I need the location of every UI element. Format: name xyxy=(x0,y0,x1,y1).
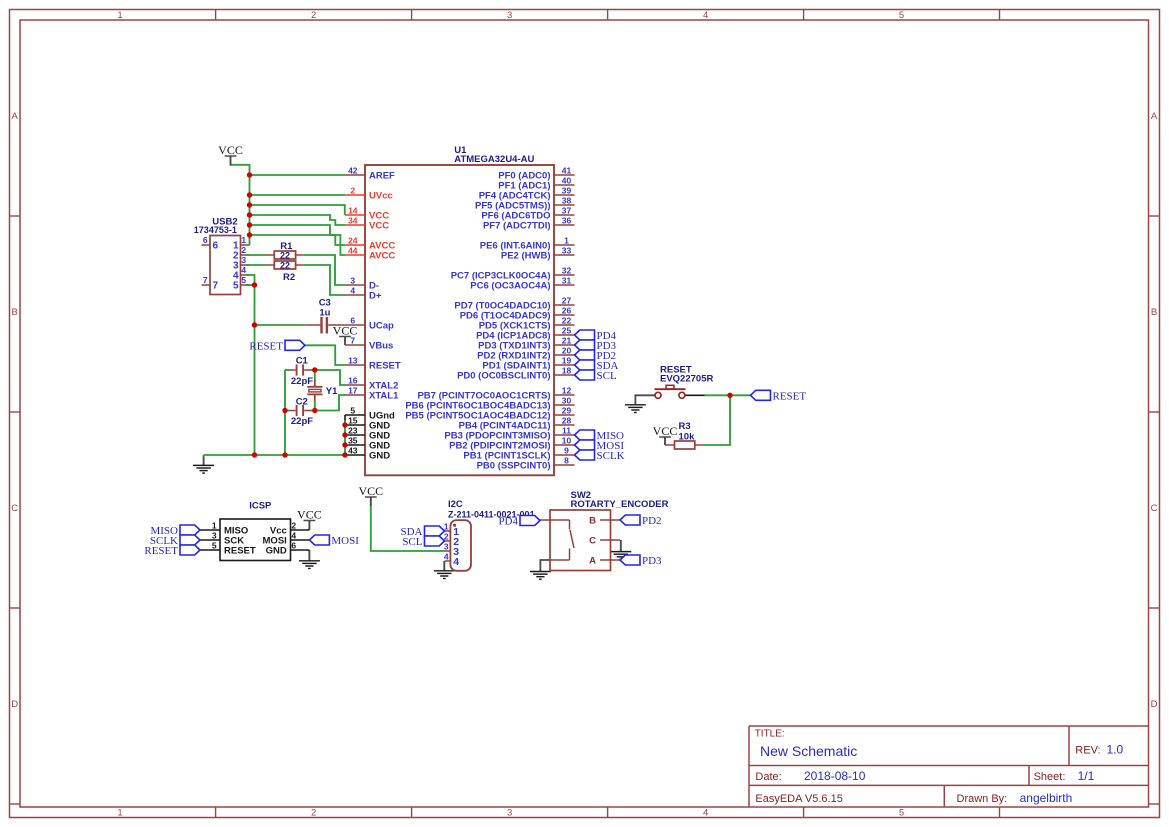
svg-text:2: 2 xyxy=(291,520,296,530)
svg-text:VCC: VCC xyxy=(653,424,678,438)
svg-text:5: 5 xyxy=(350,406,355,416)
svg-text:PD0 (OC0BSCLINT0): PD0 (OC0BSCLINT0) xyxy=(457,370,550,381)
svg-text:VBus: VBus xyxy=(369,340,393,351)
svg-text:I2C: I2C xyxy=(448,499,463,510)
svg-text:4: 4 xyxy=(241,265,246,275)
svg-text:AVCC: AVCC xyxy=(369,250,395,261)
svg-text:42: 42 xyxy=(348,166,358,176)
svg-text:18: 18 xyxy=(562,366,572,376)
svg-text:33: 33 xyxy=(562,246,572,256)
svg-text:VCC: VCC xyxy=(297,508,322,522)
svg-text:UVcc: UVcc xyxy=(369,190,393,201)
svg-text:SCL: SCL xyxy=(402,536,422,548)
svg-text:4: 4 xyxy=(703,10,708,21)
svg-text:TITLE:: TITLE: xyxy=(755,728,785,739)
svg-text:16: 16 xyxy=(348,376,358,386)
svg-text:RESET: RESET xyxy=(369,360,401,371)
svg-text:3: 3 xyxy=(350,276,355,286)
svg-text:REV:: REV: xyxy=(1075,744,1100,756)
svg-text:B: B xyxy=(12,307,18,318)
svg-text:C: C xyxy=(11,503,18,514)
svg-text:GND: GND xyxy=(369,450,390,461)
svg-text:UCap: UCap xyxy=(369,320,394,331)
svg-text:14: 14 xyxy=(348,206,358,216)
svg-text:1u: 1u xyxy=(319,307,330,318)
svg-text:A: A xyxy=(589,555,596,566)
svg-text:C1: C1 xyxy=(296,355,309,366)
svg-text:3: 3 xyxy=(212,530,217,540)
svg-text:1.0: 1.0 xyxy=(1107,742,1124,756)
svg-text:22pF: 22pF xyxy=(291,416,313,427)
svg-text:EVQ22705R: EVQ22705R xyxy=(660,374,713,385)
svg-text:PC6 (OC3AOC4A): PC6 (OC3AOC4A) xyxy=(470,280,550,291)
svg-text:13: 13 xyxy=(348,356,358,366)
svg-text:2: 2 xyxy=(241,245,246,255)
svg-text:20: 20 xyxy=(562,346,572,356)
svg-text:23: 23 xyxy=(348,426,358,436)
svg-text:38: 38 xyxy=(562,196,572,206)
svg-text:Date:: Date: xyxy=(755,771,781,783)
svg-text:R2: R2 xyxy=(283,272,295,283)
svg-text:21: 21 xyxy=(562,336,572,346)
svg-text:VCC: VCC xyxy=(358,484,383,498)
svg-text:2018-08-10: 2018-08-10 xyxy=(804,769,866,783)
svg-text:RESET: RESET xyxy=(773,391,807,403)
svg-text:1: 1 xyxy=(117,10,122,21)
svg-text:29: 29 xyxy=(562,406,572,416)
svg-text:34: 34 xyxy=(348,216,358,226)
svg-text:8: 8 xyxy=(564,456,569,466)
svg-text:30: 30 xyxy=(562,396,572,406)
svg-text:28: 28 xyxy=(562,416,572,426)
svg-text:D: D xyxy=(11,699,18,710)
svg-text:2: 2 xyxy=(311,808,316,819)
svg-text:5: 5 xyxy=(233,281,239,292)
svg-text:A: A xyxy=(1151,111,1158,122)
svg-text:6: 6 xyxy=(291,540,296,550)
svg-text:2: 2 xyxy=(311,10,316,21)
svg-text:C: C xyxy=(1151,503,1158,514)
svg-text:41: 41 xyxy=(562,166,572,176)
svg-text:1: 1 xyxy=(564,236,569,246)
svg-text:1: 1 xyxy=(117,808,122,819)
svg-text:PF7 (ADC7TDI): PF7 (ADC7TDI) xyxy=(483,220,551,231)
svg-text:C: C xyxy=(589,535,596,546)
svg-text:19: 19 xyxy=(562,356,572,366)
svg-text:ICSP: ICSP xyxy=(249,501,272,512)
svg-text:17: 17 xyxy=(348,386,358,396)
svg-text:SCL: SCL xyxy=(597,370,617,382)
svg-text:43: 43 xyxy=(348,446,358,456)
svg-text:Y1: Y1 xyxy=(326,386,338,397)
svg-text:PD4: PD4 xyxy=(498,516,518,528)
svg-text:37: 37 xyxy=(562,206,572,216)
svg-text:26: 26 xyxy=(562,306,572,316)
svg-text:44: 44 xyxy=(348,246,358,256)
svg-text:36: 36 xyxy=(562,216,572,226)
svg-text:XTAL1: XTAL1 xyxy=(369,390,399,401)
svg-text:22: 22 xyxy=(280,261,290,271)
svg-text:VCC: VCC xyxy=(218,143,243,157)
svg-text:4: 4 xyxy=(291,530,296,540)
svg-text:PD3: PD3 xyxy=(642,555,662,567)
svg-text:Drawn By:: Drawn By: xyxy=(957,793,1008,805)
svg-text:B: B xyxy=(589,515,596,526)
svg-text:27: 27 xyxy=(562,296,572,306)
svg-text:5: 5 xyxy=(241,275,246,285)
svg-text:5: 5 xyxy=(212,540,217,550)
svg-text:GND: GND xyxy=(266,545,287,556)
svg-text:PB0 (SSPCINT0): PB0 (SSPCINT0) xyxy=(477,460,551,471)
svg-text:3: 3 xyxy=(507,10,512,21)
svg-text:7: 7 xyxy=(213,281,219,292)
svg-text:RESET: RESET xyxy=(144,545,178,557)
svg-text:15: 15 xyxy=(348,416,358,426)
svg-text:PD2: PD2 xyxy=(642,515,662,527)
svg-text:3: 3 xyxy=(507,808,512,819)
svg-text:9: 9 xyxy=(564,446,569,456)
svg-text:ATMEGA32U4-AU: ATMEGA32U4-AU xyxy=(454,154,534,165)
svg-text:4: 4 xyxy=(444,552,449,562)
svg-text:1: 1 xyxy=(241,235,246,245)
svg-text:12: 12 xyxy=(562,386,572,396)
svg-text:5: 5 xyxy=(899,808,904,819)
svg-text:4: 4 xyxy=(703,808,708,819)
svg-text:40: 40 xyxy=(562,176,572,186)
svg-text:PE2 (HWB): PE2 (HWB) xyxy=(501,250,551,261)
svg-text:22: 22 xyxy=(562,316,572,326)
svg-text:4: 4 xyxy=(453,556,459,568)
svg-text:25: 25 xyxy=(562,326,572,336)
svg-text:10: 10 xyxy=(562,436,572,446)
svg-text:6: 6 xyxy=(203,235,208,245)
svg-text:SCLK: SCLK xyxy=(597,450,625,462)
svg-text:5: 5 xyxy=(899,10,904,21)
svg-text:1734753-1: 1734753-1 xyxy=(194,225,237,235)
svg-text:3: 3 xyxy=(444,542,449,552)
svg-text:ROTARTY_ENCODER: ROTARTY_ENCODER xyxy=(571,499,669,510)
svg-text:31: 31 xyxy=(562,276,572,286)
svg-text:32: 32 xyxy=(562,266,572,276)
svg-text:New Schematic: New Schematic xyxy=(760,743,857,759)
svg-text:AREF: AREF xyxy=(369,170,395,181)
svg-text:VCC: VCC xyxy=(369,220,389,231)
svg-text:Sheet:: Sheet: xyxy=(1034,771,1066,783)
svg-text:7: 7 xyxy=(203,275,208,285)
svg-text:D: D xyxy=(1151,699,1158,710)
svg-text:11: 11 xyxy=(562,426,571,436)
svg-text:RESET: RESET xyxy=(249,341,283,353)
svg-text:10k: 10k xyxy=(679,432,696,443)
svg-text:4: 4 xyxy=(350,286,355,296)
svg-text:24: 24 xyxy=(348,236,358,246)
svg-text:R3: R3 xyxy=(679,421,691,432)
svg-text:3: 3 xyxy=(241,255,246,265)
svg-text:D+: D+ xyxy=(369,290,382,301)
svg-text:1/1: 1/1 xyxy=(1078,769,1095,783)
svg-text:35: 35 xyxy=(348,436,358,446)
svg-text:RESET: RESET xyxy=(224,545,256,556)
svg-text:6: 6 xyxy=(213,241,219,252)
svg-text:39: 39 xyxy=(562,186,572,196)
svg-text:A: A xyxy=(12,111,19,122)
svg-text:C2: C2 xyxy=(296,397,308,408)
svg-text:2: 2 xyxy=(350,186,355,196)
svg-text:22: 22 xyxy=(280,251,290,261)
svg-text:1: 1 xyxy=(212,520,217,530)
svg-text:B: B xyxy=(1151,307,1157,318)
svg-text:EasyEDA V5.6.15: EasyEDA V5.6.15 xyxy=(755,793,842,805)
svg-text:angelbirth: angelbirth xyxy=(1020,791,1073,805)
svg-text:MOSI: MOSI xyxy=(331,535,359,547)
svg-text:22pF: 22pF xyxy=(291,376,313,387)
